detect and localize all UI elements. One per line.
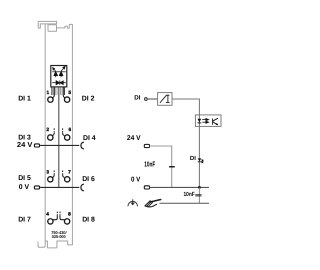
- svg-text:025-000: 025-000: [52, 234, 67, 239]
- status LEDs symbol: [52, 66, 66, 77]
- terminal 7: [65, 177, 70, 182]
- 24 V power jumper contact arc: [81, 142, 84, 149]
- suppressor diode symbol: [52, 80, 66, 85]
- optocoupler box: [195, 115, 221, 127]
- terminal 8: [64, 219, 69, 224]
- internal bus wire: [58, 87, 60, 187]
- status LED arrows: [201, 159, 203, 163]
- capacitor C2 wire: [198, 187, 200, 203]
- svg-text:DI: DI: [134, 94, 140, 101]
- module outline 750-430 body: [38, 21, 72, 248]
- svg-text:1: 1: [46, 90, 49, 96]
- terminal 6: [65, 135, 70, 140]
- 0 V bus line: [150, 186, 210, 188]
- svg-text:DI 4: DI 4: [83, 135, 96, 142]
- svg-text:DI: DI: [190, 155, 196, 162]
- input conditioner box: [158, 93, 172, 106]
- svg-text:8: 8: [68, 212, 71, 218]
- optocoupler light arrows: [202, 119, 208, 124]
- svg-text:0 V: 0 V: [19, 184, 30, 191]
- svg-text:DI 6: DI 6: [82, 176, 95, 183]
- svg-text:7: 7: [68, 169, 71, 175]
- DI input terminal: [145, 98, 148, 101]
- svg-text:6: 6: [68, 127, 71, 133]
- wire conditioner to optocoupler: [172, 99, 199, 115]
- terminal 8 dashed link: [59, 212, 61, 216]
- svg-text:5: 5: [68, 90, 71, 96]
- 24 V schematic wire: [150, 146, 172, 187]
- junction node: [198, 186, 201, 189]
- capacitor C1 plate: [169, 166, 175, 168]
- chassis line: [160, 202, 210, 204]
- svg-text:0 V: 0 V: [131, 176, 141, 183]
- svg-text:2: 2: [46, 127, 49, 133]
- capacitor C2 plates: [195, 193, 201, 196]
- svg-text:DI 7: DI 7: [18, 216, 31, 223]
- optocoupler LED wire: [198, 115, 200, 187]
- svg-text:DI 1: DI 1: [18, 95, 31, 102]
- 0 V power jumper contact arc: [81, 184, 84, 191]
- terminal 1: [48, 97, 53, 102]
- terminal 6 dashed link: [62, 128, 64, 133]
- svg-text:24 V: 24 V: [127, 135, 141, 142]
- terminal 4 dashed link: [56, 212, 58, 216]
- terminal 3: [48, 177, 53, 182]
- electronics box: [51, 66, 67, 87]
- svg-text:3: 3: [46, 169, 49, 175]
- 0 V field wire: [40, 186, 80, 188]
- terminal 3 dashed link: [53, 171, 55, 175]
- terminal 2 dashed link: [53, 128, 55, 133]
- svg-text:DI 2: DI 2: [82, 95, 95, 102]
- svg-text:DI 5: DI 5: [18, 175, 31, 182]
- svg-text:10nF: 10nF: [144, 160, 155, 169]
- svg-text:24 V: 24 V: [17, 141, 33, 149]
- optocoupler phototransistor: [213, 118, 218, 125]
- svg-text:4: 4: [46, 212, 49, 218]
- svg-text:DI 8: DI 8: [82, 216, 95, 223]
- terminal 5: [64, 97, 69, 102]
- rail contact symbol: [128, 199, 138, 206]
- 24 V schematic terminal: [144, 144, 149, 147]
- optocoupler LED: [198, 119, 202, 124]
- 0 V schematic terminal: [144, 186, 149, 189]
- wire DI to conditioner: [147, 98, 157, 100]
- terminal 4: [48, 219, 53, 224]
- terminal 1 connector: [53, 87, 55, 97]
- terminal 5 connector: [63, 87, 65, 97]
- 24 V plug terminal: [34, 144, 39, 147]
- terminal 2: [48, 135, 53, 140]
- terminal 7 dashed link: [62, 171, 64, 175]
- status LED DI: [198, 158, 202, 162]
- 0 V plug terminal: [34, 186, 39, 189]
- 24 V field wire: [40, 144, 80, 146]
- DIN rail symbol: [145, 200, 161, 207]
- clamp hatching: [52, 87, 65, 95]
- conditioner ramp-I symbol: [160, 95, 170, 103]
- svg-text:10nF: 10nF: [184, 191, 195, 198]
